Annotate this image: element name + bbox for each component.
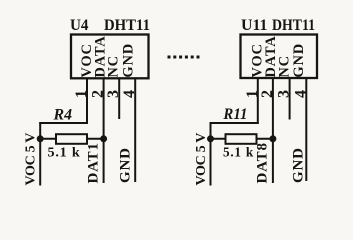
svg-text:DAT8: DAT8 <box>255 142 271 183</box>
resistor R11 body <box>226 134 257 144</box>
svg-text:5.1 k: 5.1 k <box>48 146 81 161</box>
resistor R11 left lead <box>210 138 226 140</box>
wire U11 pin1 vertical <box>257 79 259 125</box>
svg-text:GND: GND <box>121 43 137 78</box>
svg-text:NC: NC <box>276 55 292 78</box>
resistor R4 body <box>56 134 87 144</box>
wire U11 pin2 DATA vertical <box>272 79 274 184</box>
wire pin1 to VCC rail horizontal <box>39 122 88 124</box>
wire U11 pin3 NC stub <box>289 79 291 120</box>
svg-text:DAT1: DAT1 <box>86 142 102 183</box>
svg-text:GND: GND <box>291 43 307 78</box>
junction dot R4 / DAT1 <box>100 135 107 142</box>
wire U4 pin4 GND vertical <box>134 79 136 183</box>
IC U4 DHT11 body <box>71 35 149 79</box>
junction dot R11 / DAT8 <box>269 135 276 142</box>
resistor R11 right lead <box>256 138 274 140</box>
svg-text:DHT11: DHT11 <box>272 17 315 34</box>
svg-text:R11: R11 <box>222 106 247 123</box>
wire U4 pin2 DATA vertical <box>103 79 105 184</box>
wire VOC 5V rail vertical <box>39 122 41 186</box>
ellipsis separator dots <box>168 56 200 59</box>
svg-text:U11: U11 <box>241 17 268 34</box>
svg-text:5.1 k: 5.1 k <box>223 146 254 161</box>
wire U4 pin3 NC stub <box>118 79 120 120</box>
IC U11 DHT11 body <box>241 35 318 79</box>
svg-text:VOC 5 V: VOC 5 V <box>194 133 209 186</box>
svg-text:R4: R4 <box>53 107 72 124</box>
svg-text:DHT11: DHT11 <box>104 17 150 34</box>
svg-text:GND: GND <box>290 147 306 183</box>
junction dot VOC rail / R11 <box>207 135 214 142</box>
resistor R4 left lead <box>39 138 56 140</box>
svg-text:VOC 5 V: VOC 5 V <box>24 133 39 186</box>
svg-text:U4: U4 <box>70 17 89 34</box>
resistor R4 right lead <box>87 138 105 140</box>
wire VOC 5V rail vertical (right) <box>210 122 212 186</box>
svg-text:GND: GND <box>118 147 134 183</box>
svg-text:NC: NC <box>106 55 122 78</box>
wire pin1 to VCC rail horizontal (right) <box>210 122 259 124</box>
wire U4 pin1 vertical <box>86 79 88 125</box>
wire U11 pin4 GND vertical <box>305 79 307 182</box>
junction dot VOC rail / R4 <box>37 135 44 142</box>
